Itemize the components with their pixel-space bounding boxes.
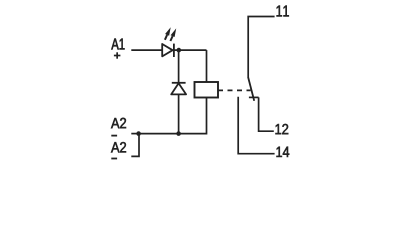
LED D1 triangle — [162, 44, 172, 56]
terminal label A2 lower — [111, 142, 126, 152]
wire coil K1 to A2 bus — [139, 98, 207, 134]
mechanical link dashed — [218, 89, 251, 91]
wire contact 12 — [259, 97, 274, 131]
freewheel diode D2 cathode bar — [172, 82, 186, 84]
wire contact 11 — [248, 17, 274, 79]
wire contact 14 — [238, 97, 274, 154]
LED D1 cathode bar — [173, 44, 175, 57]
wire junction to freewheel diode — [178, 50, 180, 83]
junction node diode on A2 bus — [176, 131, 181, 136]
wire LED cathode to coil corner — [174, 49, 207, 51]
minus polarity mark upper — [111, 135, 117, 137]
wire A2 upper to junction — [131, 133, 138, 135]
freewheel diode D2 triangle — [171, 83, 186, 94]
junction node A2 — [136, 131, 141, 136]
terminal label 12 — [276, 124, 289, 134]
contact 12 fixed bar — [249, 96, 259, 98]
LED emission arrow 1 — [165, 27, 171, 40]
terminal label 14 — [277, 147, 290, 157]
contact movable arm — [248, 78, 254, 101]
junction node after LED — [177, 48, 182, 53]
terminal label A1 — [111, 39, 124, 50]
terminal label A2 upper — [111, 118, 126, 128]
plus polarity mark — [114, 52, 121, 58]
wire freewheel diode to A2 bus — [178, 94, 180, 133]
LED emission arrow 2 — [170, 28, 176, 41]
relay coil K1 — [195, 82, 219, 98]
wire A2 lower to junction — [131, 134, 139, 157]
minus polarity mark lower — [111, 158, 117, 160]
wire down to coil K1 — [206, 50, 208, 82]
wire A1 to LED anode — [131, 49, 162, 51]
terminal label 11 — [277, 6, 289, 17]
